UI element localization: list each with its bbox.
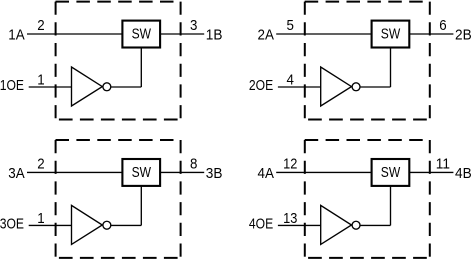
svg-text:1: 1 <box>37 72 44 89</box>
svg-text:4A: 4A <box>258 166 275 182</box>
svg-text:3B: 3B <box>206 166 223 182</box>
svg-text:13: 13 <box>283 210 297 227</box>
svg-text:3A: 3A <box>8 166 25 182</box>
svg-text:2B: 2B <box>455 27 471 43</box>
svg-text:4OE: 4OE <box>249 217 274 233</box>
svg-text:4: 4 <box>287 72 294 89</box>
svg-text:8: 8 <box>190 156 197 173</box>
svg-text:4B: 4B <box>455 166 471 182</box>
svg-text:SW: SW <box>381 27 401 43</box>
svg-text:3: 3 <box>190 17 197 34</box>
svg-text:SW: SW <box>381 165 401 181</box>
svg-text:6: 6 <box>439 17 446 34</box>
svg-text:12: 12 <box>283 155 297 172</box>
svg-text:3OE: 3OE <box>0 217 24 233</box>
svg-text:1: 1 <box>37 210 44 227</box>
svg-text:2OE: 2OE <box>249 78 274 94</box>
svg-text:2: 2 <box>37 17 44 34</box>
svg-text:5: 5 <box>287 17 294 34</box>
svg-text:1A: 1A <box>8 27 25 43</box>
svg-text:SW: SW <box>132 27 152 43</box>
svg-text:2A: 2A <box>258 27 275 43</box>
svg-text:1OE: 1OE <box>0 78 24 94</box>
svg-text:SW: SW <box>132 165 152 181</box>
svg-text:1B: 1B <box>206 27 223 43</box>
svg-text:2: 2 <box>37 155 44 172</box>
svg-text:11: 11 <box>436 156 450 173</box>
